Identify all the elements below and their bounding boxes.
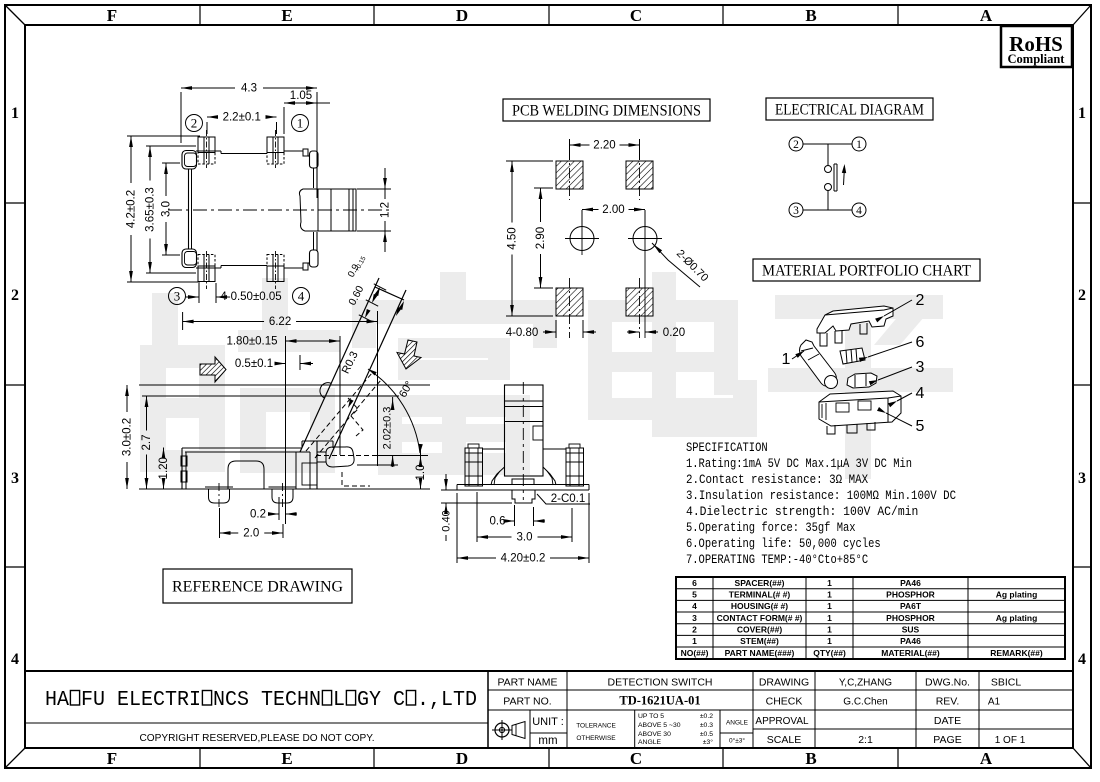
svg-text:0.40: 0.40 [441, 510, 453, 531]
svg-text:SBICL: SBICL [991, 677, 1022, 689]
svg-text:A: A [980, 6, 993, 25]
svg-text:DETECTION SWITCH: DETECTION SWITCH [608, 677, 713, 689]
svg-text:4-0.80: 4-0.80 [506, 327, 539, 339]
svg-text:2-C0.1: 2-C0.1 [551, 493, 586, 505]
svg-text:4: 4 [11, 651, 19, 668]
svg-text:4.2±0.2: 4.2±0.2 [126, 190, 138, 228]
svg-text:REFERENCE DRAWING: REFERENCE DRAWING [172, 578, 343, 595]
svg-text:ANGLE: ANGLE [638, 739, 662, 746]
svg-text:OTHERWISE: OTHERWISE [576, 735, 616, 742]
svg-text:PART NO.: PART NO. [503, 696, 551, 708]
svg-text:PAGE: PAGE [933, 734, 961, 746]
svg-text:3: 3 [793, 205, 799, 217]
svg-text:COVER(##): COVER(##) [737, 625, 783, 635]
svg-text:0.6: 0.6 [490, 516, 506, 528]
svg-text:4.Dielectric strength: 100V: 4.Dielectric strength: 100V AC/min [686, 504, 918, 519]
svg-text:2.00: 2.00 [602, 204, 624, 216]
svg-text:4.20±0.2: 4.20±0.2 [501, 553, 546, 565]
svg-text:PA46: PA46 [900, 578, 921, 588]
svg-text:ELECTRICAL DIAGRAM: ELECTRICAL DIAGRAM [775, 101, 924, 118]
svg-text:2: 2 [793, 139, 799, 151]
svg-text:CHECK: CHECK [766, 696, 803, 708]
svg-text:4: 4 [916, 385, 925, 402]
svg-text:6: 6 [692, 578, 697, 588]
svg-text:REMARK(##): REMARK(##) [990, 648, 1043, 658]
svg-text:3.Insulation resistance: 100M: 3.Insulation resistance: 100MΩ Min.100V … [686, 488, 956, 503]
svg-text:Ag plating: Ag plating [996, 613, 1038, 623]
svg-text:G.C.Chen: G.C.Chen [843, 697, 887, 708]
svg-text:3: 3 [1078, 470, 1086, 487]
svg-text:1: 1 [11, 105, 19, 122]
svg-text:±0.3: ±0.3 [700, 722, 713, 729]
svg-text:2.90: 2.90 [535, 227, 547, 249]
svg-text:2: 2 [191, 116, 198, 131]
svg-text:2: 2 [692, 625, 697, 635]
svg-text:3.0±0.2: 3.0±0.2 [122, 418, 134, 456]
svg-text:0°±3°: 0°±3° [729, 737, 745, 745]
svg-text:2: 2 [11, 287, 19, 304]
svg-text:Y,C,ZHANG: Y,C,ZHANG [839, 678, 892, 689]
svg-text:6.22: 6.22 [269, 316, 291, 328]
svg-text:5: 5 [692, 590, 697, 600]
svg-text:SUS: SUS [902, 625, 920, 635]
svg-text:4: 4 [856, 205, 862, 217]
svg-text:D: D [456, 6, 468, 25]
svg-text:SPACER(##): SPACER(##) [735, 578, 785, 588]
svg-text:E: E [281, 749, 292, 768]
svg-text:D: D [456, 749, 468, 768]
svg-text:REV.: REV. [936, 696, 960, 708]
svg-text:Compliant: Compliant [1008, 52, 1066, 66]
svg-text:ABOVE 5 ~30: ABOVE 5 ~30 [638, 722, 681, 729]
svg-text:2: 2 [1078, 287, 1086, 304]
svg-text:2.20: 2.20 [593, 140, 615, 152]
svg-text:0.5±0.1: 0.5±0.1 [235, 358, 273, 370]
svg-text:ANGLE: ANGLE [726, 720, 749, 727]
svg-text:PART NAME: PART NAME [497, 677, 557, 689]
svg-text:1: 1 [782, 351, 791, 368]
svg-text:PCB WELDING DIMENSIONS: PCB WELDING DIMENSIONS [512, 102, 701, 119]
svg-text:SPECIFICATION: SPECIFICATION [686, 440, 768, 455]
svg-text:PA6T: PA6T [900, 601, 922, 611]
svg-text:HA FU ELECTRI NCS TECHN L GY C: HA FU ELECTRI NCS TECHN L GY C .,LTD [45, 689, 477, 712]
svg-text:QTY(##): QTY(##) [813, 648, 846, 658]
svg-text:4.50: 4.50 [507, 227, 519, 249]
svg-text:UNIT :: UNIT : [532, 716, 564, 728]
svg-text:1.2: 1.2 [380, 202, 392, 218]
svg-text:F: F [107, 749, 117, 768]
svg-text:Ag plating: Ag plating [996, 590, 1038, 600]
svg-text:3: 3 [174, 289, 181, 304]
svg-text:6: 6 [916, 334, 925, 351]
svg-text:4: 4 [692, 601, 697, 611]
svg-text:1.Rating:1mA 5V DC Max.1μA 3V: 1.Rating:1mA 5V DC Max.1μA 3V DC Min [686, 456, 912, 471]
svg-text:TOLERANCE: TOLERANCE [576, 723, 616, 730]
svg-text:1 OF 1: 1 OF 1 [995, 735, 1026, 746]
svg-text:2.Contact resistance: 3Ω MAX: 2.Contact resistance: 3Ω MAX [686, 472, 868, 487]
svg-text:1.80±0.15: 1.80±0.15 [226, 336, 277, 348]
svg-text:1: 1 [827, 578, 832, 588]
svg-text:2:1: 2:1 [858, 734, 873, 746]
svg-text:SCALE: SCALE [767, 734, 801, 746]
svg-text:1: 1 [827, 590, 832, 600]
svg-text:STEM(##): STEM(##) [740, 636, 779, 646]
svg-text:±0.2: ±0.2 [700, 713, 713, 720]
svg-text:1.05: 1.05 [290, 90, 312, 102]
svg-text:3: 3 [11, 470, 19, 487]
svg-text:E: E [281, 6, 292, 25]
svg-text:UP TO 5: UP TO 5 [638, 713, 664, 720]
svg-text:1: 1 [827, 636, 832, 646]
svg-text:4.3: 4.3 [241, 83, 257, 95]
svg-text:3.65±0.3: 3.65±0.3 [145, 187, 157, 232]
svg-text:3: 3 [692, 613, 697, 623]
svg-text:7.OPERATING TEMP:-40°Cto+85°C: 7.OPERATING TEMP:-40°Cto+85°C [686, 552, 868, 567]
svg-text:PART NAME(###): PART NAME(###) [725, 648, 795, 658]
svg-text:ABOVE 30: ABOVE 30 [638, 731, 671, 738]
svg-text:±0.5: ±0.5 [700, 731, 713, 738]
svg-text:DRAWING: DRAWING [759, 677, 809, 689]
svg-text:A: A [980, 749, 993, 768]
svg-text:2.0: 2.0 [243, 528, 259, 540]
svg-text:4: 4 [1078, 651, 1086, 668]
svg-text:1: 1 [827, 613, 832, 623]
svg-text:PHOSPHOR: PHOSPHOR [886, 590, 935, 600]
svg-text:3.0: 3.0 [517, 532, 533, 544]
svg-text:PHOSPHOR: PHOSPHOR [886, 613, 935, 623]
svg-text:2.7: 2.7 [141, 435, 153, 451]
svg-text:3: 3 [916, 359, 925, 376]
svg-text:C: C [630, 749, 642, 768]
svg-text:B: B [805, 749, 816, 768]
svg-text:±3°: ±3° [703, 738, 714, 746]
svg-text:1: 1 [827, 601, 832, 611]
svg-text:1: 1 [856, 139, 862, 151]
svg-text:CONTACT FORM(# #): CONTACT FORM(# #) [717, 613, 803, 623]
svg-text:5: 5 [916, 418, 925, 435]
svg-text:6.Operating life: 50,000 cycle: 6.Operating life: 50,000 cycles [686, 536, 881, 551]
svg-text:2.02±0.3: 2.02±0.3 [382, 407, 394, 450]
svg-text:TD-1621UA-01: TD-1621UA-01 [619, 694, 700, 708]
svg-text:TERMINAL(# #): TERMINAL(# #) [729, 590, 791, 600]
svg-text:A1: A1 [988, 697, 1001, 708]
svg-text:3.0: 3.0 [161, 201, 173, 217]
svg-text:HOUSING(# #): HOUSING(# #) [731, 601, 788, 611]
svg-text:2.2±0.1: 2.2±0.1 [223, 112, 261, 124]
svg-text:C: C [630, 6, 642, 25]
svg-text:0.2: 0.2 [250, 509, 266, 521]
svg-text:5.Operating force: 35gf Max: 5.Operating force: 35gf Max [686, 520, 856, 535]
svg-text:4: 4 [298, 289, 305, 304]
svg-text:MATERIAL PORTFOLIO CHART: MATERIAL PORTFOLIO CHART [762, 262, 971, 279]
svg-text:1: 1 [297, 116, 304, 131]
svg-text:APPROVAL: APPROVAL [755, 716, 809, 727]
svg-text:DWG.No.: DWG.No. [925, 677, 970, 689]
svg-text:0.20: 0.20 [663, 327, 685, 339]
svg-text:PA46: PA46 [900, 636, 921, 646]
svg-text:1: 1 [692, 636, 697, 646]
svg-text:1.20: 1.20 [158, 457, 170, 479]
svg-text:F: F [107, 6, 117, 25]
svg-text:2: 2 [916, 292, 925, 309]
svg-text:MATERIAL(##): MATERIAL(##) [881, 648, 940, 658]
svg-text:COPYRIGHT RESERVED,PLEASE DO N: COPYRIGHT RESERVED,PLEASE DO NOT COPY. [140, 732, 375, 744]
svg-text:1.0: 1.0 [415, 465, 427, 481]
svg-text:mm: mm [538, 735, 557, 747]
svg-text:DATE: DATE [934, 715, 961, 727]
svg-text:B: B [805, 6, 816, 25]
svg-text:4-0.50±0.05: 4-0.50±0.05 [220, 291, 281, 303]
svg-text:NO(##): NO(##) [681, 648, 709, 658]
svg-text:1: 1 [827, 625, 832, 635]
svg-text:1: 1 [1078, 105, 1086, 122]
